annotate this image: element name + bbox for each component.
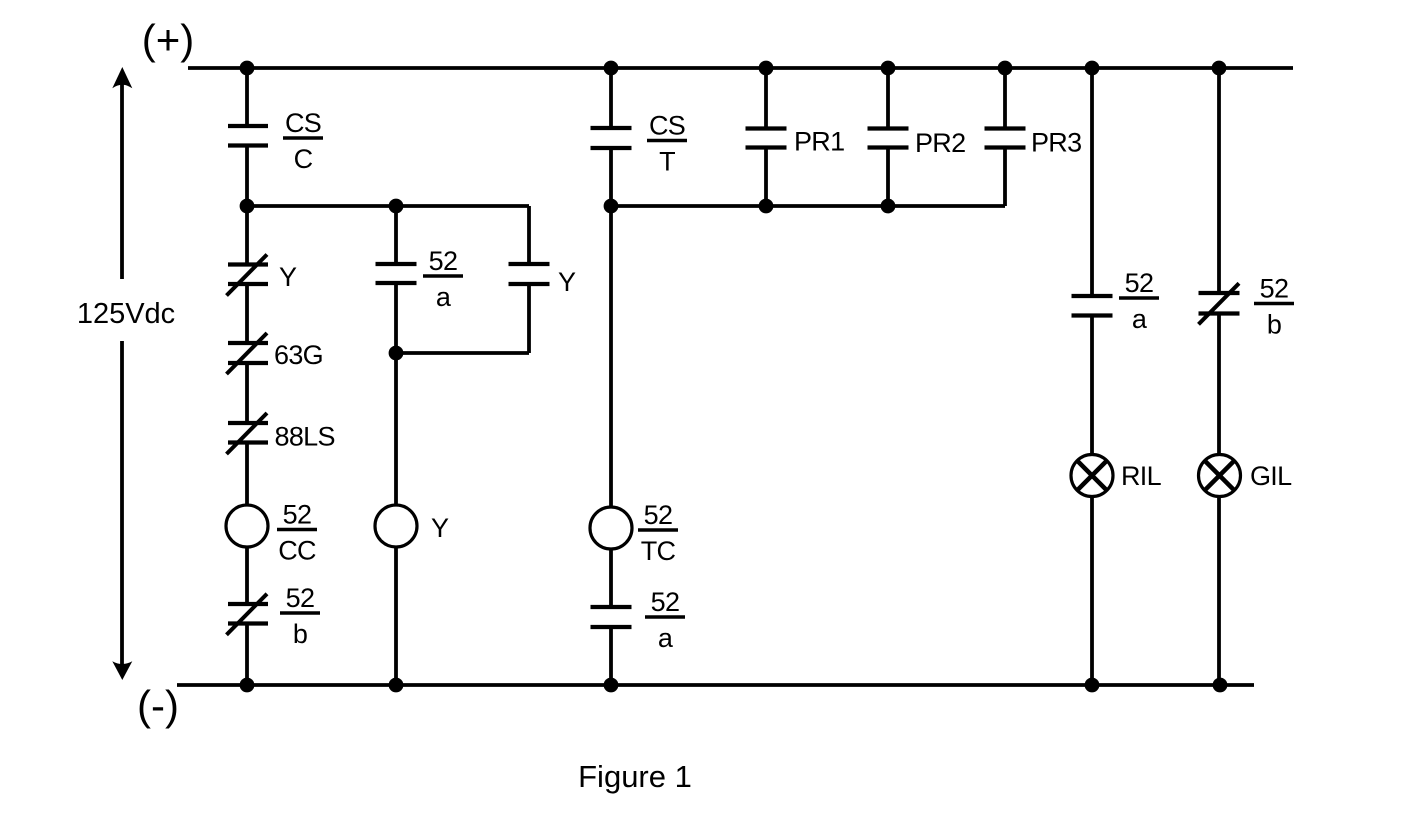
svg-text:C: C	[294, 144, 313, 174]
svg-text:52: 52	[644, 500, 673, 530]
svg-text:52: 52	[1125, 268, 1154, 298]
svg-text:52: 52	[1260, 274, 1289, 304]
svg-text:PR1: PR1	[794, 127, 844, 157]
svg-text:CS: CS	[285, 108, 321, 138]
svg-text:T: T	[659, 147, 675, 177]
svg-text:TC: TC	[641, 536, 676, 566]
svg-text:Figure 1: Figure 1	[578, 759, 692, 794]
svg-text:CS: CS	[649, 111, 685, 141]
svg-text:52: 52	[283, 500, 312, 530]
svg-text:a: a	[1132, 304, 1148, 334]
svg-text:88LS: 88LS	[275, 422, 335, 452]
svg-text:Y: Y	[558, 267, 576, 297]
svg-text:GIL: GIL	[1250, 461, 1292, 491]
svg-text:52: 52	[429, 246, 458, 276]
svg-text:a: a	[658, 623, 674, 653]
svg-text:(+): (+)	[142, 16, 195, 63]
svg-text:52: 52	[651, 587, 680, 617]
svg-text:b: b	[293, 619, 307, 649]
svg-text:52: 52	[286, 583, 315, 613]
svg-text:Y: Y	[431, 513, 449, 543]
svg-text:CC: CC	[278, 536, 316, 566]
svg-text:Y: Y	[279, 262, 297, 292]
svg-text:PR3: PR3	[1031, 128, 1081, 158]
svg-text:b: b	[1267, 310, 1281, 340]
svg-text:(-): (-)	[137, 682, 179, 729]
svg-text:125Vdc: 125Vdc	[77, 298, 175, 330]
svg-text:a: a	[436, 282, 452, 312]
svg-text:63G: 63G	[274, 340, 323, 370]
svg-text:RIL: RIL	[1121, 461, 1162, 491]
svg-text:PR2: PR2	[915, 128, 965, 158]
